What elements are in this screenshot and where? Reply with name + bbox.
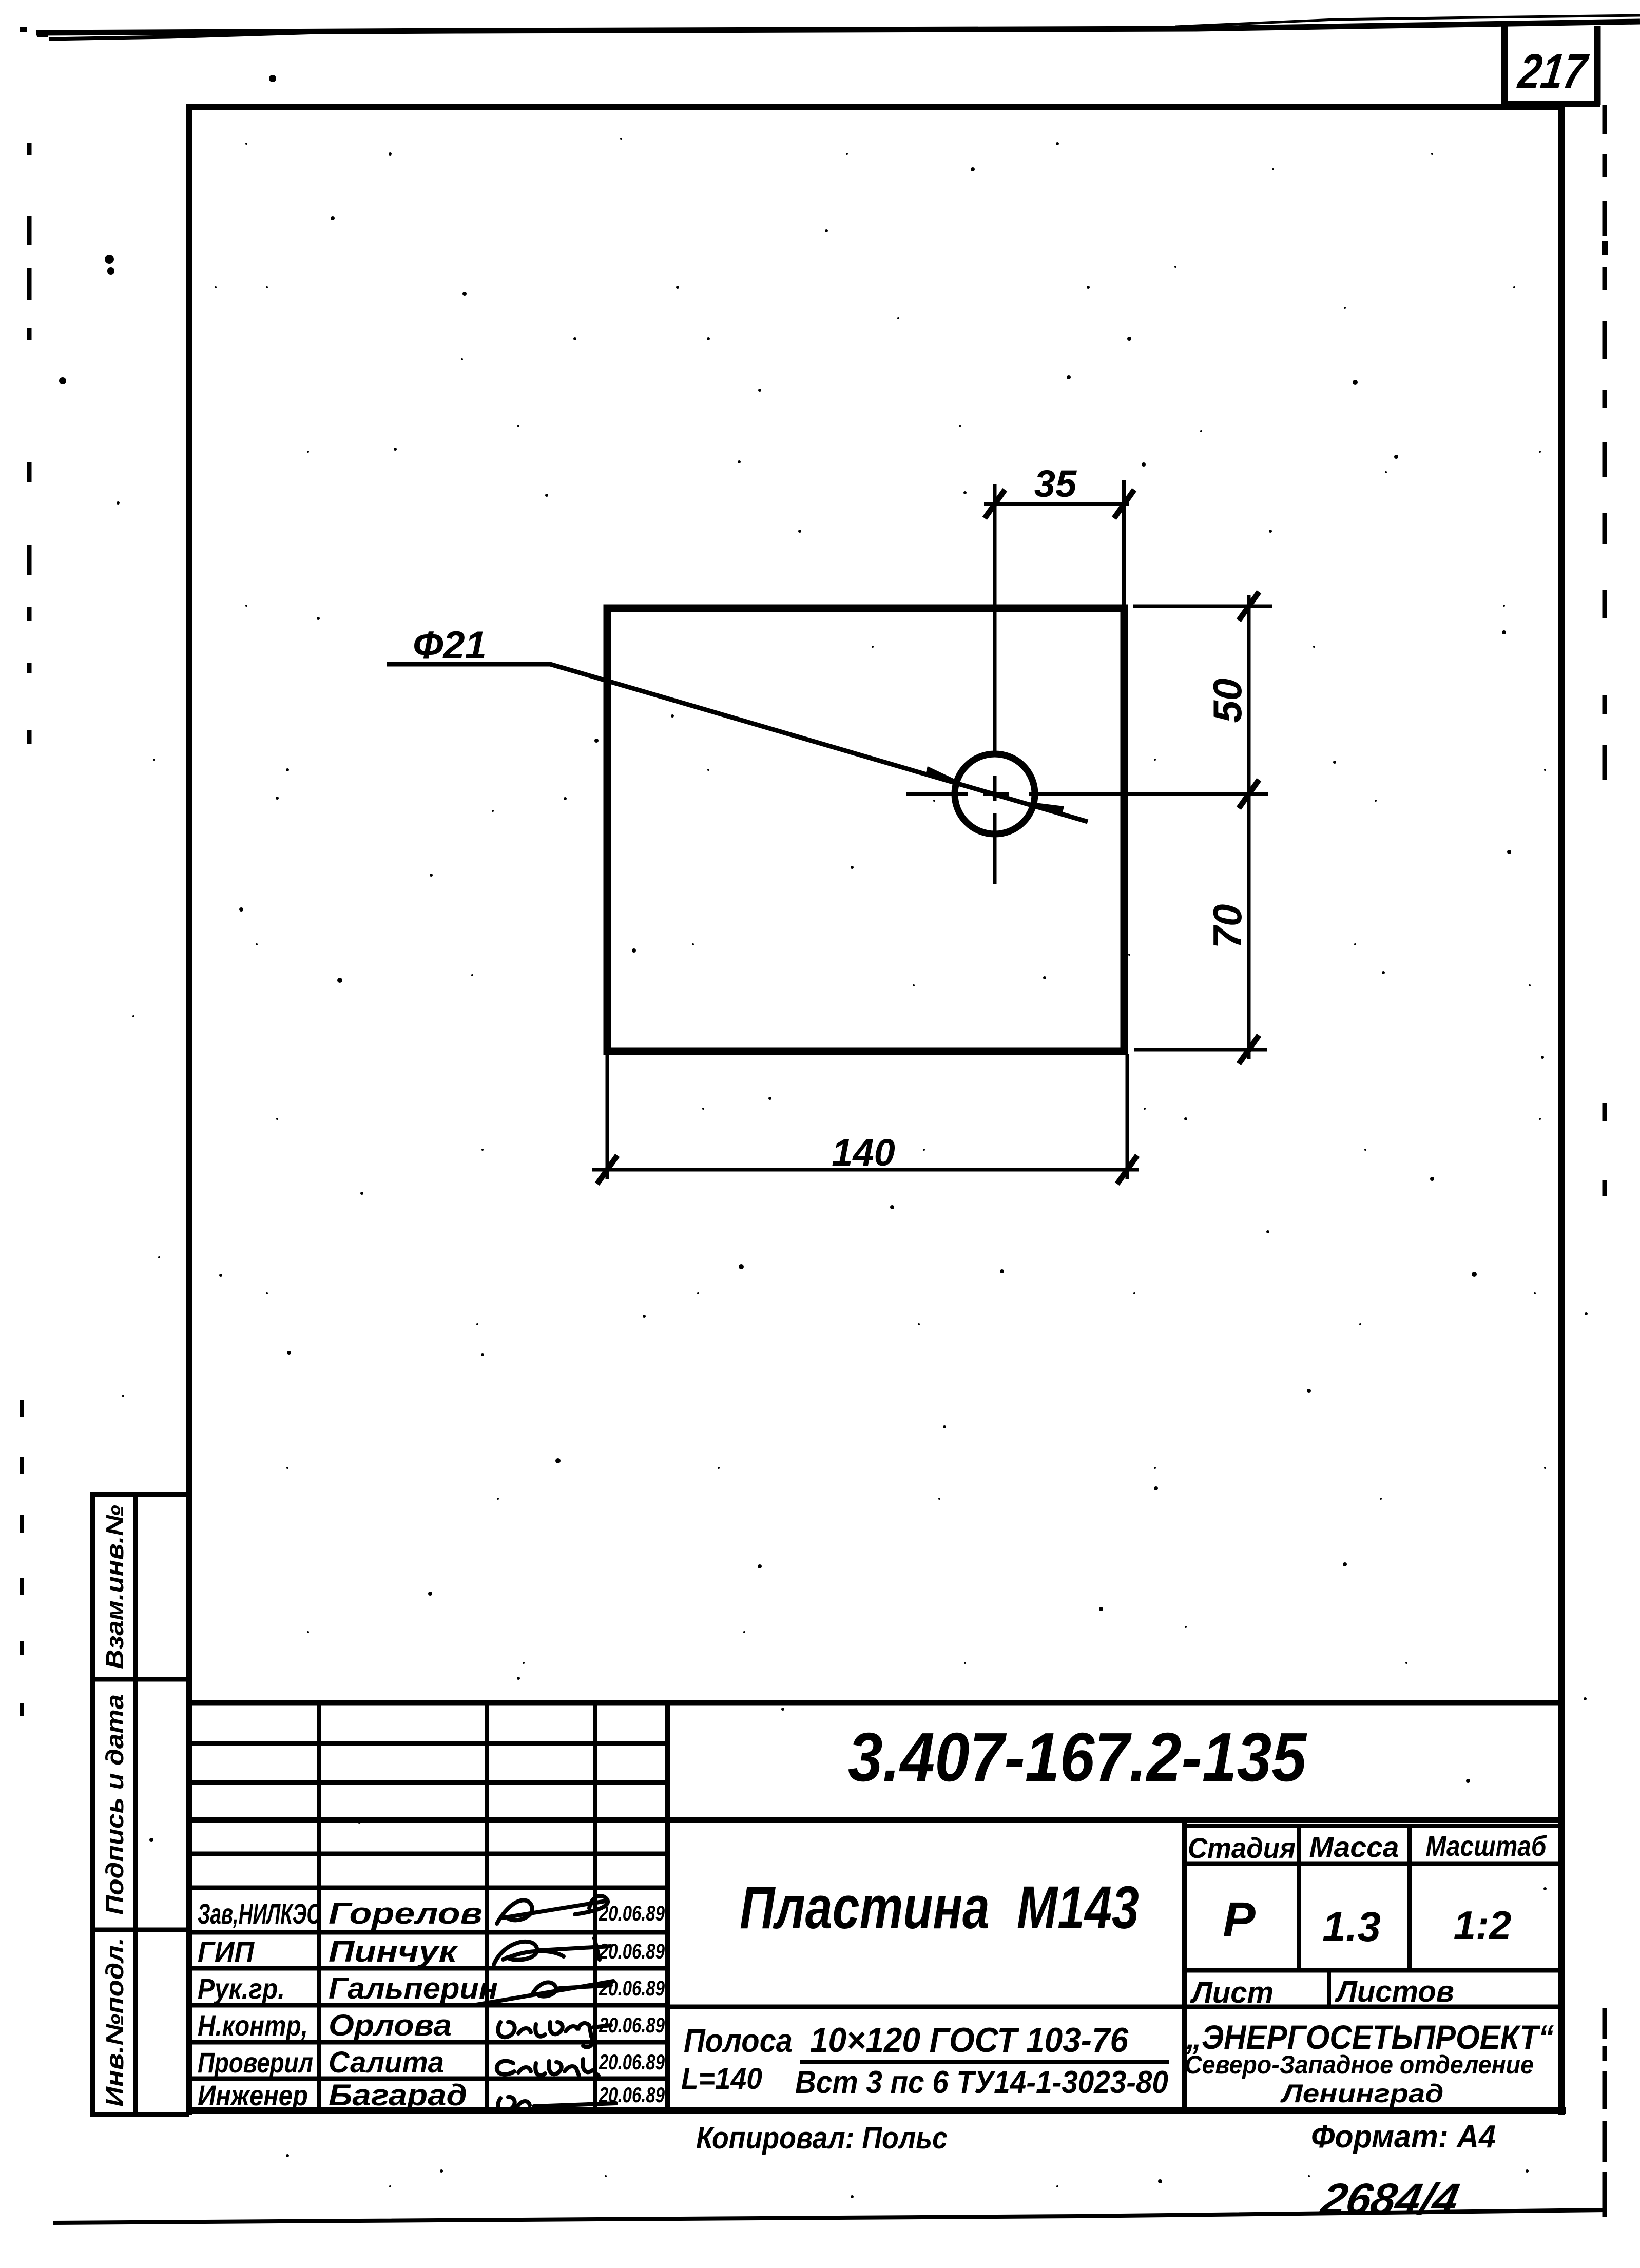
- svg-text:20.06.89: 20.06.89: [599, 1976, 665, 2000]
- svg-text:Стадия: Стадия: [1188, 1832, 1296, 1864]
- svg-text:Масштаб: Масштаб: [1426, 1830, 1547, 1862]
- svg-text:Ленинград: Ленинград: [1280, 2079, 1444, 2108]
- svg-text:3.407-167.2-135: 3.407-167.2-135: [848, 1718, 1307, 1796]
- svg-text:70: 70: [1205, 904, 1250, 949]
- svg-text:10×120 ГОСТ 103-76: 10×120 ГОСТ 103-76: [810, 2021, 1129, 2060]
- svg-text:Багарад: Багарад: [329, 2079, 467, 2112]
- svg-text:Рук.гр.: Рук.гр.: [198, 1972, 285, 2005]
- svg-text:Копировал: Польс: Копировал: Польс: [696, 2121, 948, 2155]
- svg-text:Н.контр,: Н.контр,: [198, 2009, 308, 2042]
- svg-text:Листов: Листов: [1335, 1975, 1454, 2008]
- svg-text:Северо-Западное отделение: Северо-Западное отделение: [1185, 2050, 1534, 2079]
- svg-text:Инженер: Инженер: [198, 2079, 308, 2111]
- svg-text:20.06.89: 20.06.89: [599, 1939, 665, 1963]
- svg-text:Формат: А4: Формат: А4: [1311, 2119, 1496, 2155]
- svg-text:L=140: L=140: [681, 2062, 762, 2096]
- svg-text:Взам.инв.№: Взам.инв.№: [102, 1505, 129, 1669]
- svg-text:1.3: 1.3: [1322, 1904, 1381, 1950]
- svg-text:Орлова: Орлова: [329, 2009, 452, 2042]
- svg-text:Горелов: Горелов: [329, 1897, 483, 1930]
- svg-text:1:2: 1:2: [1454, 1903, 1512, 1948]
- svg-text:ГИП: ГИП: [198, 1935, 255, 1968]
- svg-text:Полоса: Полоса: [684, 2022, 793, 2059]
- svg-text:Салита: Салита: [329, 2046, 444, 2079]
- svg-text:2684/4: 2684/4: [1316, 2175, 1463, 2224]
- svg-text:140: 140: [832, 1131, 895, 1174]
- svg-text:20.06.89: 20.06.89: [599, 2050, 665, 2074]
- svg-text:217: 217: [1514, 44, 1591, 99]
- svg-text:Гальперин: Гальперин: [329, 1972, 498, 2005]
- svg-text:Масса: Масса: [1309, 1831, 1399, 1863]
- svg-text:Вст 3 пс 6 ТУ14-1-3023-80: Вст 3 пс 6 ТУ14-1-3023-80: [795, 2065, 1168, 2100]
- svg-text:Лист: Лист: [1190, 1976, 1274, 2009]
- svg-text:Пинчук: Пинчук: [329, 1935, 458, 1968]
- svg-text:Р: Р: [1223, 1892, 1256, 1947]
- svg-text:Проверил: Проверил: [198, 2046, 313, 2079]
- svg-text:50: 50: [1205, 679, 1250, 723]
- svg-text:35: 35: [1034, 462, 1077, 505]
- svg-text:Ф21: Ф21: [413, 624, 487, 667]
- svg-text:Пластина М143: Пластина М143: [740, 1874, 1139, 1942]
- svg-text:Подпись и дата: Подпись и дата: [102, 1694, 129, 1915]
- svg-text:Зав,НИЛКЭС: Зав,НИЛКЭС: [198, 1897, 321, 1930]
- svg-text:Инв.№подл.: Инв.№подл.: [102, 1937, 129, 2107]
